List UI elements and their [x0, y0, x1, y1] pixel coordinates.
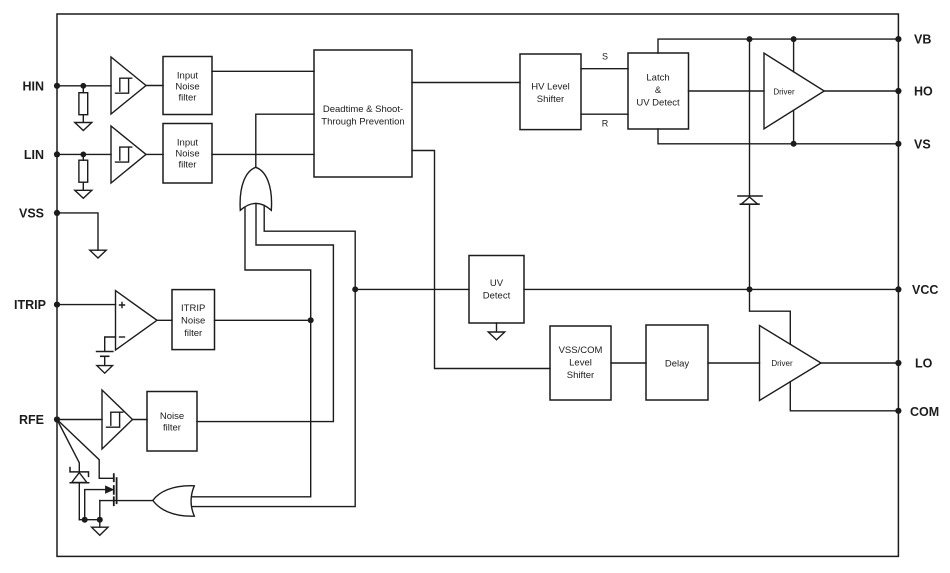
svg-text:VB: VB	[914, 33, 931, 47]
svg-text:LIN: LIN	[24, 148, 44, 162]
wire HIN input	[57, 85, 111, 87]
wire schmitt to filter	[146, 85, 163, 87]
wire LIN filter to deadtime	[212, 153, 314, 155]
node RFE pin	[54, 416, 60, 422]
svg-text:InputNoisefilter: InputNoisefilter	[175, 138, 199, 171]
svg-text:VSS: VSS	[19, 206, 44, 220]
svg-text:VCC: VCC	[912, 283, 938, 297]
svg-text:LO: LO	[915, 357, 933, 371]
node LIN resistor junction	[80, 152, 86, 158]
wire schmitt to noise filter	[133, 419, 148, 421]
node VCC pin	[895, 286, 901, 292]
svg-text:VSS/COMLevelShifter: VSS/COMLevelShifter	[559, 345, 603, 381]
diode D1 bootstrap	[738, 196, 762, 204]
svg-text:Noisefilter: Noisefilter	[160, 411, 184, 434]
wire RFE input	[57, 419, 102, 421]
node VCC/OR junction	[352, 286, 358, 292]
svg-text:Delay: Delay	[665, 358, 690, 369]
svg-text:VS: VS	[914, 137, 931, 151]
wire OR output to deadtime	[256, 114, 314, 167]
wire latch to VS rail	[658, 129, 898, 144]
block Input Noise filter (LIN)	[163, 124, 212, 184]
wire HO driver bottom to VS rail	[793, 110, 795, 144]
node VB pin	[895, 36, 901, 42]
transistor Q1 (RFE open-drain MOSFET)	[114, 474, 117, 505]
svg-text:Deadtime & Shoot-Through Preve: Deadtime & Shoot-Through Prevention	[321, 104, 404, 128]
wire S	[581, 68, 628, 70]
wire MOSFET source and gate row	[100, 500, 153, 502]
svg-text:UVDetect: UVDetect	[483, 278, 511, 302]
resistor R1 (HIN pull-down)	[79, 86, 88, 123]
svg-text:HV LevelShifter: HV LevelShifter	[531, 81, 570, 105]
node ITRIP junction	[308, 317, 314, 323]
block Deadtime & Shoot-Through Prevention	[314, 50, 412, 177]
wire OR input C / VCC node to bottom OR input	[192, 205, 355, 507]
wire LO output	[821, 362, 898, 364]
ground (HIN resistor)	[75, 123, 92, 131]
svg-text:Latch&UV Detect: Latch&UV Detect	[636, 73, 680, 109]
schmitt buffer U5 (RFE)	[102, 390, 133, 449]
wire OR input A / ITRIP node to bottom OR input	[192, 205, 311, 497]
wire VCC rail left of UV detect	[355, 288, 469, 290]
wire RFE filter to OR input B	[197, 205, 333, 422]
block HV Level Shifter	[520, 54, 581, 130]
block ITRIP Noise filter	[172, 290, 215, 350]
wire ITRIP input	[57, 304, 116, 306]
wire R	[581, 113, 628, 115]
node HIN pin	[54, 83, 60, 89]
node MOSFET body ground junction	[82, 517, 88, 523]
node ITRIP pin	[54, 302, 60, 308]
op-amp U3 HO Driver	[764, 53, 824, 129]
op-amp U6 LO Driver	[760, 326, 822, 401]
node VCC diode junction	[747, 286, 753, 292]
block UV Detect	[469, 256, 524, 324]
wire deadtime to VSS/COM level shifter	[412, 151, 550, 369]
wire HO output	[824, 90, 898, 92]
zener diode D2 (RFE clamp)	[57, 420, 89, 520]
wire delay to LO driver	[708, 362, 760, 364]
schmitt buffer U1 (HIN)	[111, 57, 146, 114]
node HO pin	[895, 88, 901, 94]
svg-text:R: R	[602, 119, 609, 129]
wire latch to HO driver	[689, 90, 765, 92]
wire source to ground node	[99, 501, 101, 520]
ground (MOSFET source)	[92, 520, 108, 536]
svg-text:InputNoisefilter: InputNoisefilter	[175, 71, 199, 104]
svg-text:ITRIP: ITRIP	[14, 298, 46, 312]
wire VCC rail right of UV detect	[524, 288, 898, 290]
block Latch & UV Detect	[628, 53, 689, 129]
wire LIN input	[57, 153, 111, 155]
wire comparator to ITRIP filter	[157, 319, 172, 321]
svg-text:Driver: Driver	[771, 359, 793, 368]
node VB driver junction	[791, 36, 797, 42]
wire shifter to delay	[611, 362, 646, 364]
ground (LIN resistor)	[75, 190, 92, 198]
block Input Noise filter (HIN)	[163, 57, 212, 115]
wire VB rail to HO driver top	[793, 39, 795, 72]
wire RFE to MOSFET drain	[57, 420, 113, 479]
svg-text:HO: HO	[914, 85, 933, 99]
block Noise filter (RFE)	[147, 392, 197, 452]
OR gate G2 (gate drive of Q1)	[153, 486, 195, 516]
wire LO driver bottom to COM	[790, 382, 898, 411]
wire bootstrap diode branch VB to VCC	[749, 39, 751, 289]
comparator U4 (ITRIP)	[116, 291, 158, 350]
ground (VSS)	[90, 250, 106, 258]
reference source (comparator minus input)	[97, 337, 116, 365]
node VS driver junction	[791, 141, 797, 147]
node HIN resistor junction	[80, 83, 86, 89]
wire HIN filter to deadtime	[212, 70, 314, 72]
node MOSFET source ground junction	[97, 517, 103, 523]
node VSS pin	[54, 210, 60, 216]
node VS pin	[895, 141, 901, 147]
wire body arrow to ground node	[85, 487, 113, 520]
node VB diode junction	[747, 36, 753, 42]
wire latch to VB rail	[658, 39, 898, 53]
node LO pin	[895, 360, 901, 366]
svg-text:Driver: Driver	[773, 87, 795, 96]
wire schmitt to filter	[146, 153, 163, 155]
svg-text:HIN: HIN	[22, 79, 44, 93]
svg-text:S: S	[602, 52, 608, 62]
wire deadtime to HV level shifter	[412, 82, 520, 84]
resistor R2 (LIN pull-down)	[79, 154, 88, 190]
svg-text:RFE: RFE	[19, 413, 44, 427]
wire VSS to ground	[57, 213, 98, 250]
block Delay	[646, 325, 708, 400]
OR gate G1 (3-input, fault logic)	[240, 167, 271, 210]
wire VCC tap to LO driver top	[750, 289, 791, 344]
ground (reference)	[97, 366, 113, 374]
wire ITRIP filter output to node	[215, 319, 311, 321]
ground (UV detect)	[488, 323, 504, 340]
svg-text:COM: COM	[910, 405, 939, 419]
node LIN pin	[54, 151, 60, 157]
block VSS/COM Level Shifter	[550, 326, 611, 400]
schmitt buffer U2 (LIN)	[111, 126, 146, 183]
wire ground link	[79, 519, 100, 521]
node COM pin	[895, 408, 901, 414]
svg-text:ITRIPNoisefilter: ITRIPNoisefilter	[181, 303, 205, 339]
